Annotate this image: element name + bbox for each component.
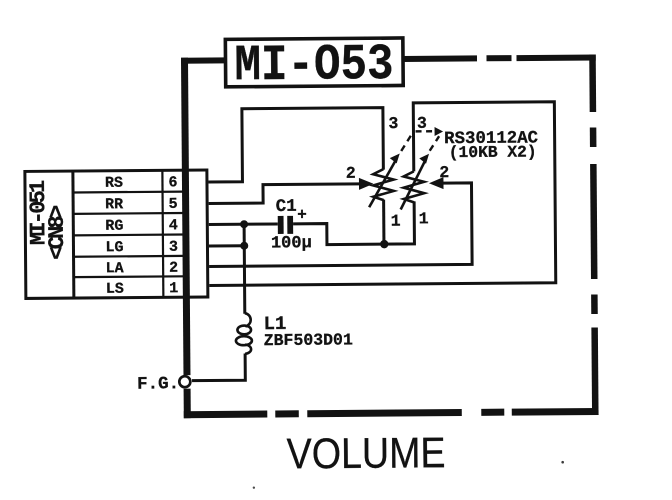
VR-L pin2 arrowhead (359, 178, 374, 190)
wire LS: connector pin1 to VR-R pin3 top (208, 102, 556, 286)
connector label MI-051 (rotated) (26, 180, 70, 260)
resistor VR-L (volume pot left) zigzag (373, 169, 394, 200)
VR-R pin2 arrowhead (429, 177, 444, 189)
wire VR-L bottom lead (382, 200, 385, 244)
svg-text:1: 1 (419, 209, 429, 228)
block MI-053 title box (225, 38, 403, 87)
svg-text:3: 3 (169, 239, 178, 256)
svg-text:3: 3 (417, 114, 427, 133)
wire LA: connector pin2 to VR-R pin2 arrow (208, 183, 472, 267)
svg-text:3: 3 (388, 114, 398, 133)
resistor VR-R wiper arrow (400, 161, 425, 209)
junction node LG (240, 242, 248, 250)
svg-text:1: 1 (169, 280, 178, 297)
connector number col right edge (182, 170, 185, 297)
inductor L1 coil (236, 313, 252, 354)
svg-text:RS: RS (105, 175, 123, 192)
wire RR: connector pin5 to VR-L pin2 arrow (208, 184, 359, 204)
svg-text:2: 2 (346, 164, 356, 183)
wire junction link RG-LG (243, 224, 246, 245)
node F.G. terminal circle (179, 376, 190, 387)
wire RS: connector pin6 to VR-L pin3 top (208, 108, 384, 182)
svg-text:RG: RG (105, 218, 123, 235)
svg-text:(10KB X2): (10KB X2) (449, 142, 537, 162)
svg-text:F.G.: F.G. (137, 374, 179, 394)
capacitor C1 body (278, 216, 293, 234)
svg-text:4: 4 (169, 217, 178, 234)
speck (253, 486, 255, 488)
connector name/number divider (161, 170, 164, 297)
svg-text:ZBF503D01: ZBF503D01 (264, 330, 353, 350)
junction node VR-L pin1 (380, 240, 388, 248)
connector MI-051 CN8 outer box (25, 170, 208, 298)
block MI-053 title text (234, 36, 394, 95)
board border left (solid) (181, 58, 191, 419)
svg-text:2: 2 (169, 260, 178, 277)
resistor VR-R gang dash (430, 136, 440, 151)
board border (dashed) bottom (184, 408, 599, 418)
resistor VR-L gang dash (401, 133, 413, 151)
wire: junction to L1 to F.G. (191, 246, 245, 381)
wire RG: connector pin4 through C1 to pots pin1 (209, 222, 278, 226)
svg-text:100µ: 100µ (271, 234, 312, 253)
title VOLUME (286, 428, 445, 478)
junction node RG/C1 (240, 220, 248, 228)
svg-text:<CN8>: <CN8> (45, 205, 70, 260)
svg-text:LA: LA (106, 260, 124, 277)
svg-text:2: 2 (439, 163, 449, 182)
connector label box divider (71, 171, 75, 298)
svg-text:C1: C1 (276, 197, 297, 217)
connector row names (105, 175, 124, 298)
gang linkage horizontal dash with arrow (416, 130, 434, 133)
wire LG: connector pin3 to junction (209, 244, 244, 247)
speck (561, 461, 564, 464)
board border (dashed) top (181, 54, 596, 63)
board border (dashed) right (589, 54, 598, 415)
svg-text:6: 6 (168, 174, 177, 191)
svg-text:MI-O53: MI-O53 (234, 36, 394, 95)
connector row lines (73, 192, 184, 278)
resistor VR-R (volume pot right) zigzag (404, 171, 425, 202)
svg-text:RR: RR (105, 196, 123, 213)
connector pin numbers (168, 174, 178, 297)
svg-text:1: 1 (391, 211, 401, 230)
svg-text:+: + (297, 206, 307, 224)
svg-text:LS: LS (106, 281, 124, 298)
svg-text:5: 5 (169, 196, 178, 213)
resistor VR-L wiper arrow (369, 161, 396, 207)
svg-text:VOLUME: VOLUME (286, 428, 445, 478)
svg-text:LG: LG (105, 239, 123, 256)
